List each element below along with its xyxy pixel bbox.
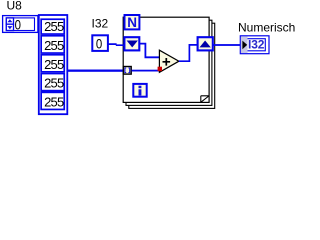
for loop dog-ear fold: [201, 96, 209, 103]
spin button down cell: [6, 24, 13, 30]
for loop sheet 2: [126, 20, 212, 105]
wire: array to tunnel (thick U8 array wire): [68, 70, 124, 72]
array index inner field: [6, 18, 34, 31]
add plus glyph: [163, 58, 171, 66]
array element 4 (255): [41, 74, 64, 91]
count terminal N: [125, 15, 140, 30]
svg-text:255: 255: [44, 76, 64, 91]
svg-text:U8: U8: [7, 0, 23, 13]
indicator arrow: [242, 41, 247, 50]
for loop sheet 3: [129, 23, 215, 108]
coercion dot (red): [158, 67, 162, 71]
indicator arrow block (lavender): [241, 37, 248, 53]
array constant U8: index display outer box: [3, 16, 38, 33]
spin button up cell: [6, 18, 13, 24]
array element frame: [39, 15, 68, 114]
left shift register (down arrow): [124, 37, 139, 50]
svg-text:255: 255: [44, 19, 64, 34]
iteration terminal i: [133, 84, 146, 97]
wire: tunnel to add lower input: [132, 70, 160, 72]
svg-text:255: 255: [44, 57, 64, 72]
svg-text:N: N: [127, 15, 137, 30]
indicator terminal outer box: [240, 36, 269, 54]
svg-text:0: 0: [96, 35, 102, 51]
wire: constant 0 to left shift register: [108, 44, 125, 45]
wire: right shift register to indicator: [214, 44, 241, 46]
array element 5 (255): [41, 92, 64, 109]
array element 3 (255): [41, 55, 64, 72]
constant 0 (I32): [92, 35, 108, 51]
svg-text:255: 255: [44, 94, 64, 109]
right shift register (up arrow): [198, 37, 213, 50]
wire: left shift register to add upper input (right, down, right): [140, 44, 160, 58]
svg-text:I32: I32: [248, 38, 265, 52]
array element 2 (255): [41, 36, 64, 53]
array element 1 (255): [41, 19, 64, 34]
svg-text:Numerisch: Numerisch: [238, 21, 295, 35]
svg-text:I32: I32: [92, 17, 109, 31]
svg-text:0: 0: [15, 16, 21, 32]
wire: add output to right shift register (right, up, right): [179, 45, 197, 61]
add function triangle: [159, 50, 179, 72]
indicator inner box: [243, 39, 266, 51]
for loop main border: [123, 17, 209, 102]
svg-text:255: 255: [44, 38, 64, 53]
tunnel [] (auto-indexing): [123, 67, 131, 75]
